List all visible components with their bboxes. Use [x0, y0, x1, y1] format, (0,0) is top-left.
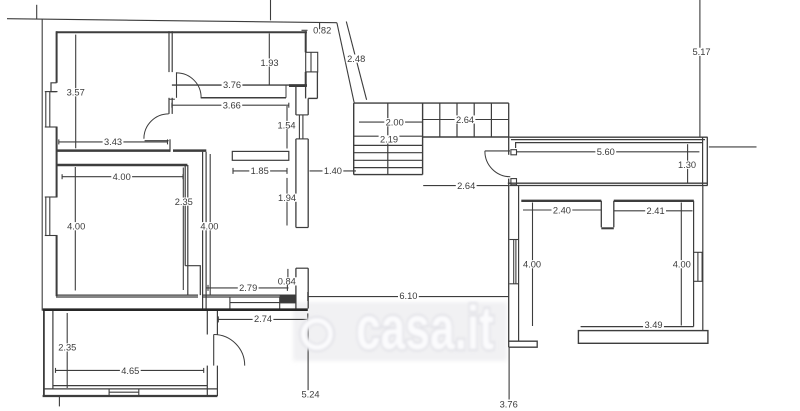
label 4.00 room width [111, 172, 132, 182]
dim line 3.76 lower [508, 347, 510, 399]
label 3.57 [65, 88, 86, 98]
bottom window mid line [109, 391, 139, 393]
right wall bottom room line b upper [216, 311, 218, 335]
svg-text:4.00: 4.00 [200, 222, 218, 232]
right window line b [701, 252, 703, 281]
french window mid line [230, 302, 280, 304]
dim line 4.00 lower-right vertical [680, 203, 682, 326]
label 1.40 [323, 166, 344, 176]
dim tick 1.85 right [286, 168, 288, 174]
site boundary diagonal [337, 23, 354, 103]
svg-text:2.00: 2.00 [386, 118, 404, 128]
label 4.65 [120, 366, 141, 376]
label 2.35 bottom [57, 343, 78, 353]
window W2 tick top [45, 196, 58, 198]
dim tick 4.65 left [55, 368, 57, 373]
door D4 leaf [213, 335, 215, 366]
corridor bottom line b [510, 185, 708, 187]
wall line 3.76 [172, 84, 307, 86]
door jamb vertical [169, 139, 171, 152]
notch right [613, 201, 615, 228]
bottom window jamb left [108, 389, 110, 396]
bottom wall middle room line a1 [56, 294, 198, 296]
pier at middle room corner [185, 266, 200, 295]
dim line 2.79 [207, 287, 289, 289]
window W1 tick top [45, 91, 58, 93]
dim tick below bottom wall [58, 397, 60, 407]
window W2 tick bottom [45, 235, 58, 237]
left wall bottom room outer [43, 311, 45, 396]
dim line 3.57 vertical [75, 35, 77, 149]
site boundary line top [7, 19, 337, 23]
right wall 1.93 room upper [305, 31, 307, 52]
door D2 arc [144, 114, 169, 139]
dim ext 0.82 [319, 23, 321, 30]
dim tick 3.66 right [288, 103, 290, 108]
svg-text:5.60: 5.60 [597, 147, 615, 157]
divider wall line b upper [171, 31, 173, 72]
bottom wall middle room line a2 [202, 294, 295, 296]
dim line 1.54 [286, 106, 288, 149]
left outer wall mid [56, 127, 58, 197]
door D3 jamb upper [511, 150, 517, 155]
label 1.30 [677, 160, 698, 170]
left wall bottom room inner [52, 311, 54, 389]
dim tick 0.82 [302, 29, 308, 31]
label 4.00 corridor [199, 222, 220, 232]
wall stub right of 3.76 [289, 84, 307, 87]
corridor right wall line a [702, 137, 704, 185]
label 0.82 [312, 26, 333, 36]
svg-text:casa.it: casa.it [356, 294, 494, 362]
dim line 1.93 vertical [268, 33, 270, 84]
column wall line a lower [295, 268, 297, 308]
right wall bottom room line b lower [216, 366, 218, 396]
watermark logo ring [301, 318, 334, 351]
corridor left wall line a [202, 152, 204, 309]
dim tick 6.10 left [307, 292, 309, 301]
notch bottom [601, 227, 614, 229]
svg-text:2.64: 2.64 [457, 181, 475, 191]
bottom wall middle room line b2 [202, 296, 295, 298]
stair mid vertical [422, 103, 424, 175]
svg-text:0.84: 0.84 [278, 277, 296, 287]
svg-text:3.49: 3.49 [644, 320, 662, 330]
dim tick 3.43 left [58, 139, 60, 144]
french window jamb right [279, 297, 281, 309]
dim line 4.00 left vertical [74, 167, 76, 291]
bottom wall inner line b [44, 388, 218, 390]
right wall middle room line a [184, 165, 186, 266]
column window line b [302, 115, 304, 139]
svg-text:2.79: 2.79 [239, 283, 257, 293]
svg-text:1.93: 1.93 [260, 58, 278, 68]
label 1.93 [259, 58, 280, 68]
column wall line a upper [295, 87, 297, 115]
dim tick 3.66 left [171, 103, 173, 108]
dim tick 0.84 [287, 269, 289, 278]
door D1 leaf [176, 72, 178, 98]
wall solid by column [280, 295, 296, 303]
watermark band [293, 302, 507, 361]
dim tick 2.79 right [286, 285, 288, 291]
stair bottom left part [354, 174, 423, 176]
label 3.76 [222, 80, 243, 90]
left outer wall upper [56, 31, 58, 83]
corridor right wall line b [706, 137, 708, 185]
door D4 arc [214, 335, 245, 366]
window W2 line a [45, 197, 47, 236]
svg-text:2.35: 2.35 [58, 343, 76, 353]
svg-text:5.17: 5.17 [692, 47, 710, 57]
svg-text:2.41: 2.41 [647, 206, 665, 216]
svg-text:1.30: 1.30 [678, 160, 696, 170]
dim line 2.40 [523, 209, 601, 211]
dim line 1.40 [310, 170, 357, 172]
window W1 line b [49, 92, 51, 127]
door D3 leaf [485, 150, 510, 152]
dim line 6.10 [308, 296, 509, 298]
left window line a [513, 240, 515, 284]
svg-text:3.57: 3.57 [67, 88, 85, 98]
svg-text:1.54: 1.54 [277, 120, 295, 130]
top wall lower-right left part [521, 200, 601, 202]
divider wall line b mid [171, 98, 173, 114]
svg-text:3.43: 3.43 [104, 137, 122, 147]
bottom wall outer [43, 395, 218, 397]
dim line 1.30 [687, 144, 689, 183]
dim line 1.85 [233, 170, 287, 172]
wall band corridor top [173, 149, 206, 152]
dim line 4.00 horizontal [62, 176, 183, 178]
right wall bottom room line a lower [206, 366, 208, 396]
label 4.00 lower-right [671, 260, 692, 270]
door D3 arc [485, 151, 510, 177]
left wall foot [509, 341, 538, 347]
svg-text:2.19: 2.19 [380, 135, 398, 145]
dim tick 3.43 right [167, 139, 169, 144]
stair tread h3 [354, 159, 423, 161]
stair tread v1 [439, 103, 441, 137]
thick band bottom rooms [43, 308, 308, 311]
label 4.00 lower-left [522, 260, 543, 270]
stair tread h2 [354, 152, 423, 154]
label 3.49 [643, 320, 664, 330]
svg-text:2.35: 2.35 [175, 197, 193, 207]
label 0.84 [276, 277, 297, 287]
corridor top outer line a [510, 136, 708, 138]
top wall lower-right right part [614, 200, 694, 202]
label 2.41 [645, 206, 666, 216]
label 2.48 [346, 54, 367, 64]
dim line 2.41 [614, 210, 693, 212]
svg-text:4.00: 4.00 [67, 222, 85, 232]
left window line b [515, 240, 517, 284]
dim line 4.65 [56, 369, 204, 371]
svg-text:2.40: 2.40 [553, 205, 571, 215]
stair tread v3 [473, 103, 475, 137]
svg-text:2.64: 2.64 [456, 115, 474, 125]
watermark text casa.it [356, 294, 494, 362]
column wall line a mid [295, 139, 297, 228]
window 1.93 room mid line [310, 52, 312, 72]
dim tick 2.79 left [207, 285, 209, 291]
svg-text:4.00: 4.00 [113, 172, 131, 182]
dim line 4.00 lower-left vertical [532, 203, 534, 327]
column window line a [298, 115, 300, 139]
left window tick bottom [510, 283, 519, 285]
dim line 2.74 [218, 318, 307, 320]
site tick top-left [36, 5, 38, 19]
label 2.64 lower [456, 181, 477, 191]
svg-text:3.66: 3.66 [223, 101, 241, 111]
svg-text:4.00: 4.00 [523, 260, 541, 270]
right wall middle room line b [187, 165, 189, 266]
dim tick 4.65 right [203, 368, 205, 373]
left wall notch [51, 83, 57, 92]
stair bottom right part [423, 136, 510, 138]
bottom bar lower-right [578, 331, 708, 344]
stair tread v4 [490, 103, 492, 137]
label 2.00 [384, 118, 405, 128]
dim line 5.60 [517, 151, 700, 153]
svg-text:2.48: 2.48 [347, 54, 365, 64]
column cap upper [296, 227, 308, 229]
door D3 jamb lower [511, 179, 517, 185]
dim tick 4.00h right [182, 174, 184, 179]
left outer wall lower [56, 236, 58, 297]
dim line 2.35 vertical [182, 168, 184, 291]
stair tread v2 [456, 103, 458, 137]
right window tick top [694, 251, 703, 253]
label 5.17 [691, 47, 712, 57]
dim line 2.64 upper [423, 119, 509, 121]
stair top [354, 102, 509, 104]
label 2.79 [238, 283, 259, 293]
window W1 tick bottom [45, 126, 58, 128]
svg-text:1.94: 1.94 [278, 193, 296, 203]
left window tick top [510, 239, 519, 241]
corridor top outer line b [511, 139, 705, 141]
dim line 2.00 [359, 121, 423, 123]
dim line 1.94 [286, 178, 288, 226]
dim line 5.24 [307, 322, 309, 390]
right wall lower-right inner [693, 201, 695, 327]
left wall lower-right inner [518, 186, 520, 342]
label 2.35 middle [173, 197, 194, 207]
notch left [600, 201, 602, 228]
stair tread h4 [354, 167, 423, 169]
column wall line b lower [307, 268, 309, 308]
label 1.94 [277, 193, 298, 203]
right window tick bottom [694, 280, 703, 282]
corridor bottom line a [508, 182, 708, 184]
svg-text:3.76: 3.76 [223, 80, 241, 90]
column wall line b mid [307, 139, 309, 228]
svg-text:3.76: 3.76 [500, 399, 518, 409]
dim tick right edge [709, 146, 757, 148]
label 3.43 [103, 137, 124, 147]
right window line a [697, 252, 699, 281]
label 5.60 [595, 147, 616, 157]
label 2.64 upper [455, 115, 476, 125]
label 2.19 [379, 135, 400, 145]
site tick top-middle [270, 0, 272, 20]
column wall line b upper [307, 98, 309, 115]
column cap lower [296, 267, 308, 269]
right wall lower-right outer [702, 186, 704, 331]
svg-text:0.82: 0.82 [313, 26, 331, 36]
bottom wall middle room line b1 [56, 296, 198, 298]
outline step vertical [316, 72, 318, 98]
label 1.54 [276, 120, 297, 130]
divider wall line a upper [168, 31, 170, 72]
svg-text:5.24: 5.24 [301, 390, 319, 400]
label 1.85 [249, 166, 270, 176]
wall band room bottom [56, 149, 170, 152]
top wall upper block [56, 31, 307, 33]
dim line 2.64 lower [423, 185, 509, 187]
label 6.10 [398, 291, 419, 301]
dim tick 2.74 right [307, 313, 309, 322]
door D1 jamb tick [169, 98, 175, 100]
bottom wall lower-right inner [581, 326, 694, 328]
label 2.74 [253, 314, 274, 324]
window W2 line b [49, 197, 51, 236]
stair center divider [387, 103, 389, 175]
top wall middle room [56, 164, 187, 166]
stair line 136 [354, 135, 423, 137]
dim tick 4.00h left [61, 174, 63, 179]
outline step horizontal [308, 97, 317, 99]
dim line 3.66 [172, 104, 289, 106]
french window jamb left [229, 297, 231, 309]
site boundary line left [41, 19, 43, 311]
label 3.76 lower [498, 399, 519, 409]
door D2 leaf [145, 140, 169, 142]
window W1 line a [45, 92, 47, 127]
corridor left wall line b [205, 152, 207, 309]
label 4.00 left [66, 222, 87, 232]
svg-text:4.00: 4.00 [673, 260, 691, 270]
lower line below 1.93 room [201, 97, 286, 99]
dim tick 1.85 left [232, 168, 234, 174]
window 1.93 room box [306, 52, 318, 72]
divider wall line a mid [168, 98, 170, 114]
left wall lower-right outer lower [508, 179, 510, 348]
door D1 arc [177, 73, 202, 98]
column window tick bottom [296, 138, 308, 140]
stair left [353, 103, 355, 175]
dim tick 2.74 left [217, 316, 219, 322]
right wall 1.93 room lower [305, 72, 307, 86]
dim line 2.35 bottom room [66, 313, 68, 388]
dim line 4.00 corridor vertical [209, 154, 211, 296]
dim line 3.43 [59, 141, 168, 143]
column window tick top [296, 114, 308, 116]
bottom window jamb right [138, 389, 140, 396]
right wall bottom room line a upper [206, 311, 208, 335]
wall stub central [232, 151, 288, 160]
svg-text:1.85: 1.85 [251, 166, 269, 176]
label 5.24 [300, 390, 321, 400]
svg-text:1.40: 1.40 [324, 166, 342, 176]
label 3.66 [221, 101, 242, 111]
svg-text:4.65: 4.65 [121, 366, 139, 376]
left wall lower-right outer upper [508, 103, 510, 155]
wall seg below 1.93 wall [305, 86, 307, 98]
stair tread h1 [354, 144, 423, 146]
connector below 1.93 room [285, 86, 287, 98]
dim line 5.17 vertical [699, 0, 701, 137]
svg-text:2.74: 2.74 [254, 314, 272, 324]
dim line 2.48 diagonal [346, 22, 366, 100]
bottom wall inner line a [53, 385, 207, 387]
label 2.40 [552, 205, 573, 215]
corridor top inner [516, 143, 703, 148]
